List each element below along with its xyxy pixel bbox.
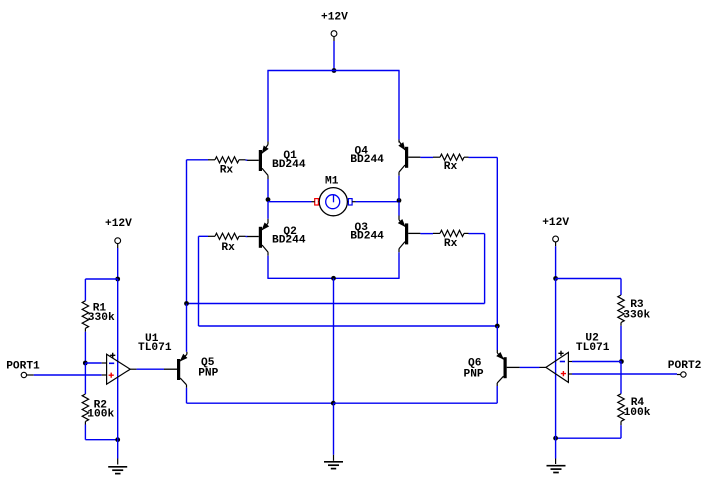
svg-text:+12V: +12V xyxy=(542,217,569,229)
transistor Q2 xyxy=(247,223,306,256)
wire xyxy=(267,179,269,201)
svg-text:100k: 100k xyxy=(624,407,651,419)
wire xyxy=(333,278,335,403)
transistor Q5 xyxy=(177,352,219,388)
wire xyxy=(267,277,399,279)
svg-text:Q6: Q6 xyxy=(468,357,482,369)
svg-text:PNP: PNP xyxy=(464,369,484,381)
svg-text:Rx: Rx xyxy=(221,242,235,254)
wire xyxy=(84,279,86,301)
svg-text:TL071: TL071 xyxy=(138,342,172,354)
wire xyxy=(267,71,269,145)
transistor Q4 xyxy=(350,141,420,176)
svg-text:330k: 330k xyxy=(88,312,115,324)
junction xyxy=(619,359,624,364)
port PORT1 xyxy=(6,361,40,378)
svg-text:TL071: TL071 xyxy=(576,342,610,354)
op-amp U1 TL071 xyxy=(107,333,172,384)
resistor Rx (Q3 base) xyxy=(433,230,469,250)
wire xyxy=(130,368,177,370)
svg-text:+12V: +12V xyxy=(321,12,348,24)
wire xyxy=(420,156,433,158)
wire xyxy=(246,236,248,238)
wire xyxy=(556,425,621,438)
wire xyxy=(398,202,400,220)
svg-text:Rx: Rx xyxy=(220,165,234,177)
wire xyxy=(420,233,433,235)
wire xyxy=(85,362,106,364)
wire xyxy=(555,438,557,464)
transistor Q3 xyxy=(350,220,420,252)
wire xyxy=(117,440,119,465)
resistor Rx (Q4 base) xyxy=(433,154,469,173)
wire xyxy=(333,41,335,71)
ground xyxy=(547,465,566,467)
ground xyxy=(108,466,127,468)
svg-text:PORT2: PORT2 xyxy=(668,360,702,372)
wire xyxy=(620,362,622,394)
transistor Q1 xyxy=(247,145,306,180)
wire xyxy=(85,425,117,440)
wire xyxy=(507,366,546,368)
wire xyxy=(85,278,117,280)
wire xyxy=(84,332,86,363)
op-amp U2 TL071 xyxy=(546,333,610,383)
resistor R4 100k xyxy=(618,394,651,426)
svg-text:Rx: Rx xyxy=(444,161,458,173)
junction xyxy=(553,436,558,441)
wire xyxy=(555,279,557,439)
svg-text:BD244: BD244 xyxy=(350,231,384,243)
wire xyxy=(84,363,86,394)
wire xyxy=(555,246,557,278)
junction xyxy=(184,301,189,306)
wire xyxy=(356,201,400,203)
wire xyxy=(334,386,498,403)
wire xyxy=(469,157,498,326)
svg-text:100k: 100k xyxy=(87,409,114,421)
junction xyxy=(83,361,88,366)
wire xyxy=(620,326,622,362)
wire xyxy=(199,236,209,326)
resistor R2 100k xyxy=(82,394,114,425)
wire xyxy=(268,201,312,203)
resistor Rx (Q2 base) xyxy=(208,233,246,254)
svg-text:PNP: PNP xyxy=(198,368,218,380)
junction xyxy=(115,437,120,442)
power +12V (top) xyxy=(321,12,348,42)
wire xyxy=(620,279,622,296)
wire xyxy=(117,248,119,279)
wire xyxy=(117,279,119,440)
wire xyxy=(398,252,400,278)
wire xyxy=(568,361,621,363)
resistor R3 330k xyxy=(618,295,651,326)
wire xyxy=(267,256,269,279)
wire xyxy=(187,160,209,304)
port PORT2 xyxy=(668,360,702,377)
wire xyxy=(469,234,485,304)
svg-text:Rx: Rx xyxy=(444,238,458,250)
svg-text:330k: 330k xyxy=(623,309,650,321)
wire xyxy=(398,71,400,143)
svg-text:BD244: BD244 xyxy=(272,159,306,171)
wire xyxy=(496,326,498,350)
svg-text:BD244: BD244 xyxy=(272,235,306,247)
wire xyxy=(556,278,621,280)
wire xyxy=(186,304,188,352)
wire xyxy=(246,159,248,161)
power +12V (left) xyxy=(105,218,132,248)
junction xyxy=(495,324,500,329)
junction xyxy=(332,68,337,73)
node B wire xyxy=(199,325,498,327)
wire xyxy=(398,176,400,201)
ground xyxy=(324,461,343,463)
resistor Rx (Q1 base) xyxy=(208,157,246,177)
svg-text:BD244: BD244 xyxy=(350,154,384,166)
power +12V (right) xyxy=(542,217,569,246)
junction xyxy=(331,276,336,281)
svg-text:M1: M1 xyxy=(325,175,339,187)
svg-text:PORT1: PORT1 xyxy=(6,361,40,373)
wire xyxy=(187,388,334,403)
transistor Q6 xyxy=(464,350,507,386)
junction xyxy=(331,401,336,406)
junction xyxy=(553,276,558,281)
resistor R1 330k xyxy=(82,301,115,332)
wire xyxy=(267,70,399,72)
motor M1 xyxy=(312,175,356,215)
junction xyxy=(397,198,402,203)
junction xyxy=(266,197,271,202)
wire xyxy=(568,373,677,375)
junction xyxy=(115,277,120,282)
svg-text:+12V: +12V xyxy=(105,218,132,230)
wire xyxy=(34,374,107,376)
node A wire xyxy=(187,303,485,305)
wire xyxy=(333,403,335,461)
wire xyxy=(267,202,269,224)
